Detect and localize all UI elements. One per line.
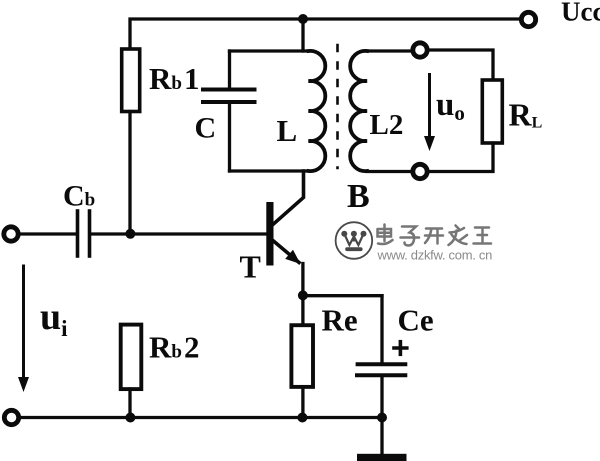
wire L2 bottom: [367, 170, 411, 173]
watermark logo circle: [336, 222, 373, 259]
node base junction: [125, 229, 135, 239]
ground: [357, 454, 407, 461]
wire Ce upper lead: [380, 296, 383, 363]
capacitor Cb: [78, 211, 90, 256]
transistor Q emitter wire: [274, 241, 300, 263]
wire input to Cb: [19, 232, 76, 235]
resistor Rb1: [122, 49, 140, 112]
inductor L: [309, 51, 326, 171]
transistor Q emitter arrow: [285, 250, 300, 264]
resistor Rb2: [121, 325, 142, 390]
svg-text:B: B: [347, 178, 370, 215]
wire tank to rail: [301, 19, 304, 51]
wire ground lead: [380, 418, 383, 455]
terminal Ucc: [521, 12, 535, 26]
wire Rb2 to bottom rail: [128, 389, 131, 418]
node bottom junction Rb2: [125, 413, 135, 423]
wire output top: [429, 50, 493, 80]
arrow uo: [424, 75, 435, 152]
svg-text:C: C: [195, 112, 217, 145]
node emitter junction: [298, 290, 308, 300]
node bottom junction Ce: [377, 413, 387, 423]
transformer core dashed line: [336, 45, 339, 168]
wire base: [130, 232, 267, 235]
svg-text:Ce: Ce: [398, 303, 434, 338]
wire emitter to Ce branch: [303, 294, 382, 297]
resistor Re: [291, 325, 313, 387]
svg-text:L: L: [277, 113, 298, 148]
inductor L2: [350, 51, 367, 171]
wire top rail: [130, 19, 519, 49]
terminal output top: [413, 43, 427, 57]
svg-text:Ucc: Ucc: [561, 0, 600, 27]
capacitor C: [203, 90, 255, 103]
resistor RL: [482, 80, 502, 143]
wire emitter down: [301, 264, 304, 296]
wire Re upper lead: [301, 295, 304, 325]
wire tank bottom: [230, 169, 309, 172]
terminal output bottom: [413, 164, 427, 178]
wire tank top: [230, 49, 309, 52]
node top-rail junction: [298, 14, 308, 24]
terminal bottom-left: [4, 410, 18, 424]
transistor Q collector wire: [274, 171, 304, 224]
wire L2 top: [367, 49, 411, 52]
transistor Q base bar: [266, 202, 273, 266]
wire Rb1 to base junction: [128, 112, 131, 235]
terminal input: [4, 227, 18, 241]
capacitor Ce: [357, 364, 405, 375]
svg-text:www. dzkfw. com. cn: www. dzkfw. com. cn: [377, 248, 493, 263]
svg-text:T: T: [240, 249, 261, 285]
watermark logo W: [341, 231, 366, 237]
watermark chinese text: [378, 225, 492, 246]
svg-text:Re: Re: [322, 303, 358, 338]
wire Ce lower lead: [380, 377, 383, 418]
node bottom junction Re: [297, 413, 307, 423]
wire output bottom: [429, 143, 493, 172]
wire Cb to junction: [91, 232, 130, 235]
wire Re lower lead: [301, 387, 304, 418]
arrow ui: [18, 266, 29, 392]
capacitor Ce plus sign: [394, 342, 407, 355]
svg-text:L2: L2: [370, 109, 404, 141]
wire bottom rail: [20, 416, 383, 419]
wire cap branch lower: [228, 104, 231, 172]
wire cap branch upper: [228, 51, 231, 88]
